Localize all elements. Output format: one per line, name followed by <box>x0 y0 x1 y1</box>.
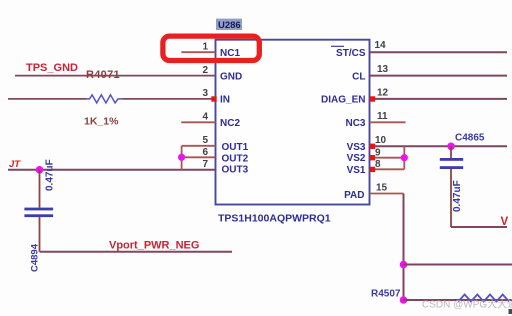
pin label ST/CS with overline <box>331 46 366 59</box>
svg-text:0.47uF: 0.47uF <box>45 159 56 191</box>
svg-text:NC1: NC1 <box>220 48 240 59</box>
svg-text:VS2: VS2 <box>347 153 366 164</box>
capacitor C4865 plates <box>440 158 463 169</box>
wire pin5 stub <box>182 145 216 147</box>
pin 12 connection square <box>370 96 375 101</box>
svg-text:CL: CL <box>352 71 365 82</box>
refdes U286 <box>216 19 242 31</box>
wire right segment of pin 3 net <box>123 98 216 100</box>
junction on pin9 stub <box>401 154 408 161</box>
corner mark <box>509 309 512 314</box>
wire pin11 stub <box>370 121 406 123</box>
svg-text:OUT3: OUT3 <box>222 164 249 175</box>
net TPS_GND wire to pin 2 <box>15 75 216 77</box>
wire cap C4894 top lead <box>39 170 41 208</box>
svg-text:C4865: C4865 <box>455 133 485 144</box>
resistor R4071 zigzag <box>86 95 122 103</box>
svg-text:1: 1 <box>202 42 208 53</box>
svg-text:TPS_GND: TPS_GND <box>26 62 78 74</box>
svg-text:ST/CS: ST/CS <box>336 48 366 59</box>
svg-text:9: 9 <box>375 147 381 158</box>
svg-text:13: 13 <box>377 64 389 75</box>
junction lower branch <box>400 296 408 304</box>
junction upper branch <box>400 261 408 269</box>
junction capacitor branch <box>36 166 44 174</box>
svg-text:11: 11 <box>377 111 388 122</box>
wire pin13 net <box>370 75 508 77</box>
red highlight box around pin 1 <box>163 36 259 60</box>
svg-text:10: 10 <box>375 135 387 146</box>
svg-text:R4507: R4507 <box>371 289 401 300</box>
svg-text:R4071: R4071 <box>86 69 120 81</box>
wire pin6 stub <box>182 156 216 158</box>
wire from C4865 to right edge <box>451 226 507 228</box>
svg-text:PAD: PAD <box>344 190 364 201</box>
svg-text:GND: GND <box>220 71 242 82</box>
wire pin14 net <box>370 51 508 53</box>
wire pin1 stub <box>181 51 215 53</box>
wire pin15 stub <box>370 193 404 195</box>
wire pin15 vertical net <box>403 194 405 301</box>
svg-text:12: 12 <box>377 88 389 99</box>
svg-text:6: 6 <box>202 147 208 158</box>
svg-text:CSDN @WPG大大通: CSDN @WPG大大通 <box>422 298 512 311</box>
wire pin12 net <box>370 98 508 100</box>
svg-text:3: 3 <box>202 88 208 99</box>
wire Vport_PWR_NEG net <box>40 251 233 253</box>
svg-text:VS3: VS3 <box>347 142 366 153</box>
wire upper branch to right edge <box>404 264 512 266</box>
pin 8 connection square <box>370 167 375 172</box>
svg-text:4: 4 <box>202 112 208 123</box>
svg-text:2: 2 <box>202 65 208 76</box>
wire bracket joining pins 5-7 <box>181 146 183 170</box>
svg-text:5: 5 <box>202 135 208 146</box>
IC U286 body <box>216 40 370 205</box>
svg-text:VS1: VS1 <box>347 165 366 176</box>
svg-text:0.47uF: 0.47uF <box>452 180 463 212</box>
svg-text:V: V <box>501 216 509 228</box>
svg-text:14: 14 <box>375 40 387 51</box>
svg-text:8: 8 <box>375 159 381 170</box>
wire pin7 long net to left edge <box>8 169 216 171</box>
svg-text:JT: JT <box>9 159 21 170</box>
svg-text:NC3: NC3 <box>345 118 365 129</box>
junction on pin6 stub <box>178 154 185 161</box>
wire cap C4865 top lead <box>450 146 452 158</box>
svg-text:U286: U286 <box>218 20 241 31</box>
pin 10 connection square <box>370 144 375 149</box>
svg-text:IN: IN <box>220 95 230 106</box>
svg-text:Vport_PWR_NEG: Vport_PWR_NEG <box>109 239 199 251</box>
svg-text:NC2: NC2 <box>220 118 240 129</box>
pin 9 connection square <box>370 155 375 160</box>
wire lower branch to right edge <box>404 299 512 301</box>
wire cap C4865 bottom lead <box>450 169 452 227</box>
junction capacitor C4865 branch <box>447 143 455 151</box>
wire bracket joining pins 8-10 <box>403 146 405 169</box>
svg-text:15: 15 <box>376 183 388 194</box>
wire pin9 stub <box>370 157 405 159</box>
resistor R4507 zigzag <box>458 295 509 302</box>
svg-text:DIAG_EN: DIAG_EN <box>321 95 365 106</box>
wire pin10 net VS3 <box>370 145 508 147</box>
svg-text:1K_1%: 1K_1% <box>84 116 119 128</box>
pin 3 connection square <box>211 96 216 101</box>
svg-text:OUT2: OUT2 <box>222 153 249 164</box>
wire left segment of pin 3 net <box>8 98 86 100</box>
wire pin4 stub <box>181 121 215 123</box>
wire pin8 stub <box>370 168 405 170</box>
wire cap C4894 bottom lead <box>39 217 41 252</box>
capacitor C4894 plates <box>24 208 53 218</box>
svg-text:OUT1: OUT1 <box>222 142 249 153</box>
svg-text:7: 7 <box>202 159 208 170</box>
svg-text:TPS1H100AQPWPRQ1: TPS1H100AQPWPRQ1 <box>218 213 331 225</box>
